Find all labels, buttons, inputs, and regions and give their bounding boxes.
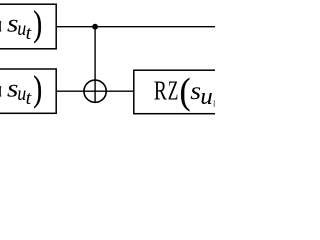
svg-text:t: t xyxy=(26,89,33,109)
svg-text:Z: Z xyxy=(168,75,179,105)
gate box RZ (right, cropped at right edge) xyxy=(134,70,229,114)
svg-text:t: t xyxy=(26,24,33,44)
svg-text:): ) xyxy=(33,3,42,43)
wire vertical CNOT link xyxy=(94,27,96,103)
label RZ(s_u_t) in RZ gate xyxy=(154,70,215,111)
svg-text:R: R xyxy=(154,75,167,105)
label (s_u_t) in gate U2 xyxy=(0,68,42,109)
label (s_u_t) in gate U1 xyxy=(0,3,42,44)
wire top qubit xyxy=(56,26,215,28)
svg-text:(: ( xyxy=(180,70,191,111)
svg-text:u: u xyxy=(200,83,213,110)
svg-text:): ) xyxy=(33,68,42,108)
wire bottom qubit (left segment through CNOT target to RZ box) xyxy=(56,90,134,92)
CNOT target on bottom wire xyxy=(84,80,106,102)
gate box U1 (top-left, cropped at left edge) xyxy=(0,4,56,49)
gate box U2 (bottom-left, cropped at left edge) xyxy=(0,69,56,113)
control dot on top wire xyxy=(92,24,98,30)
